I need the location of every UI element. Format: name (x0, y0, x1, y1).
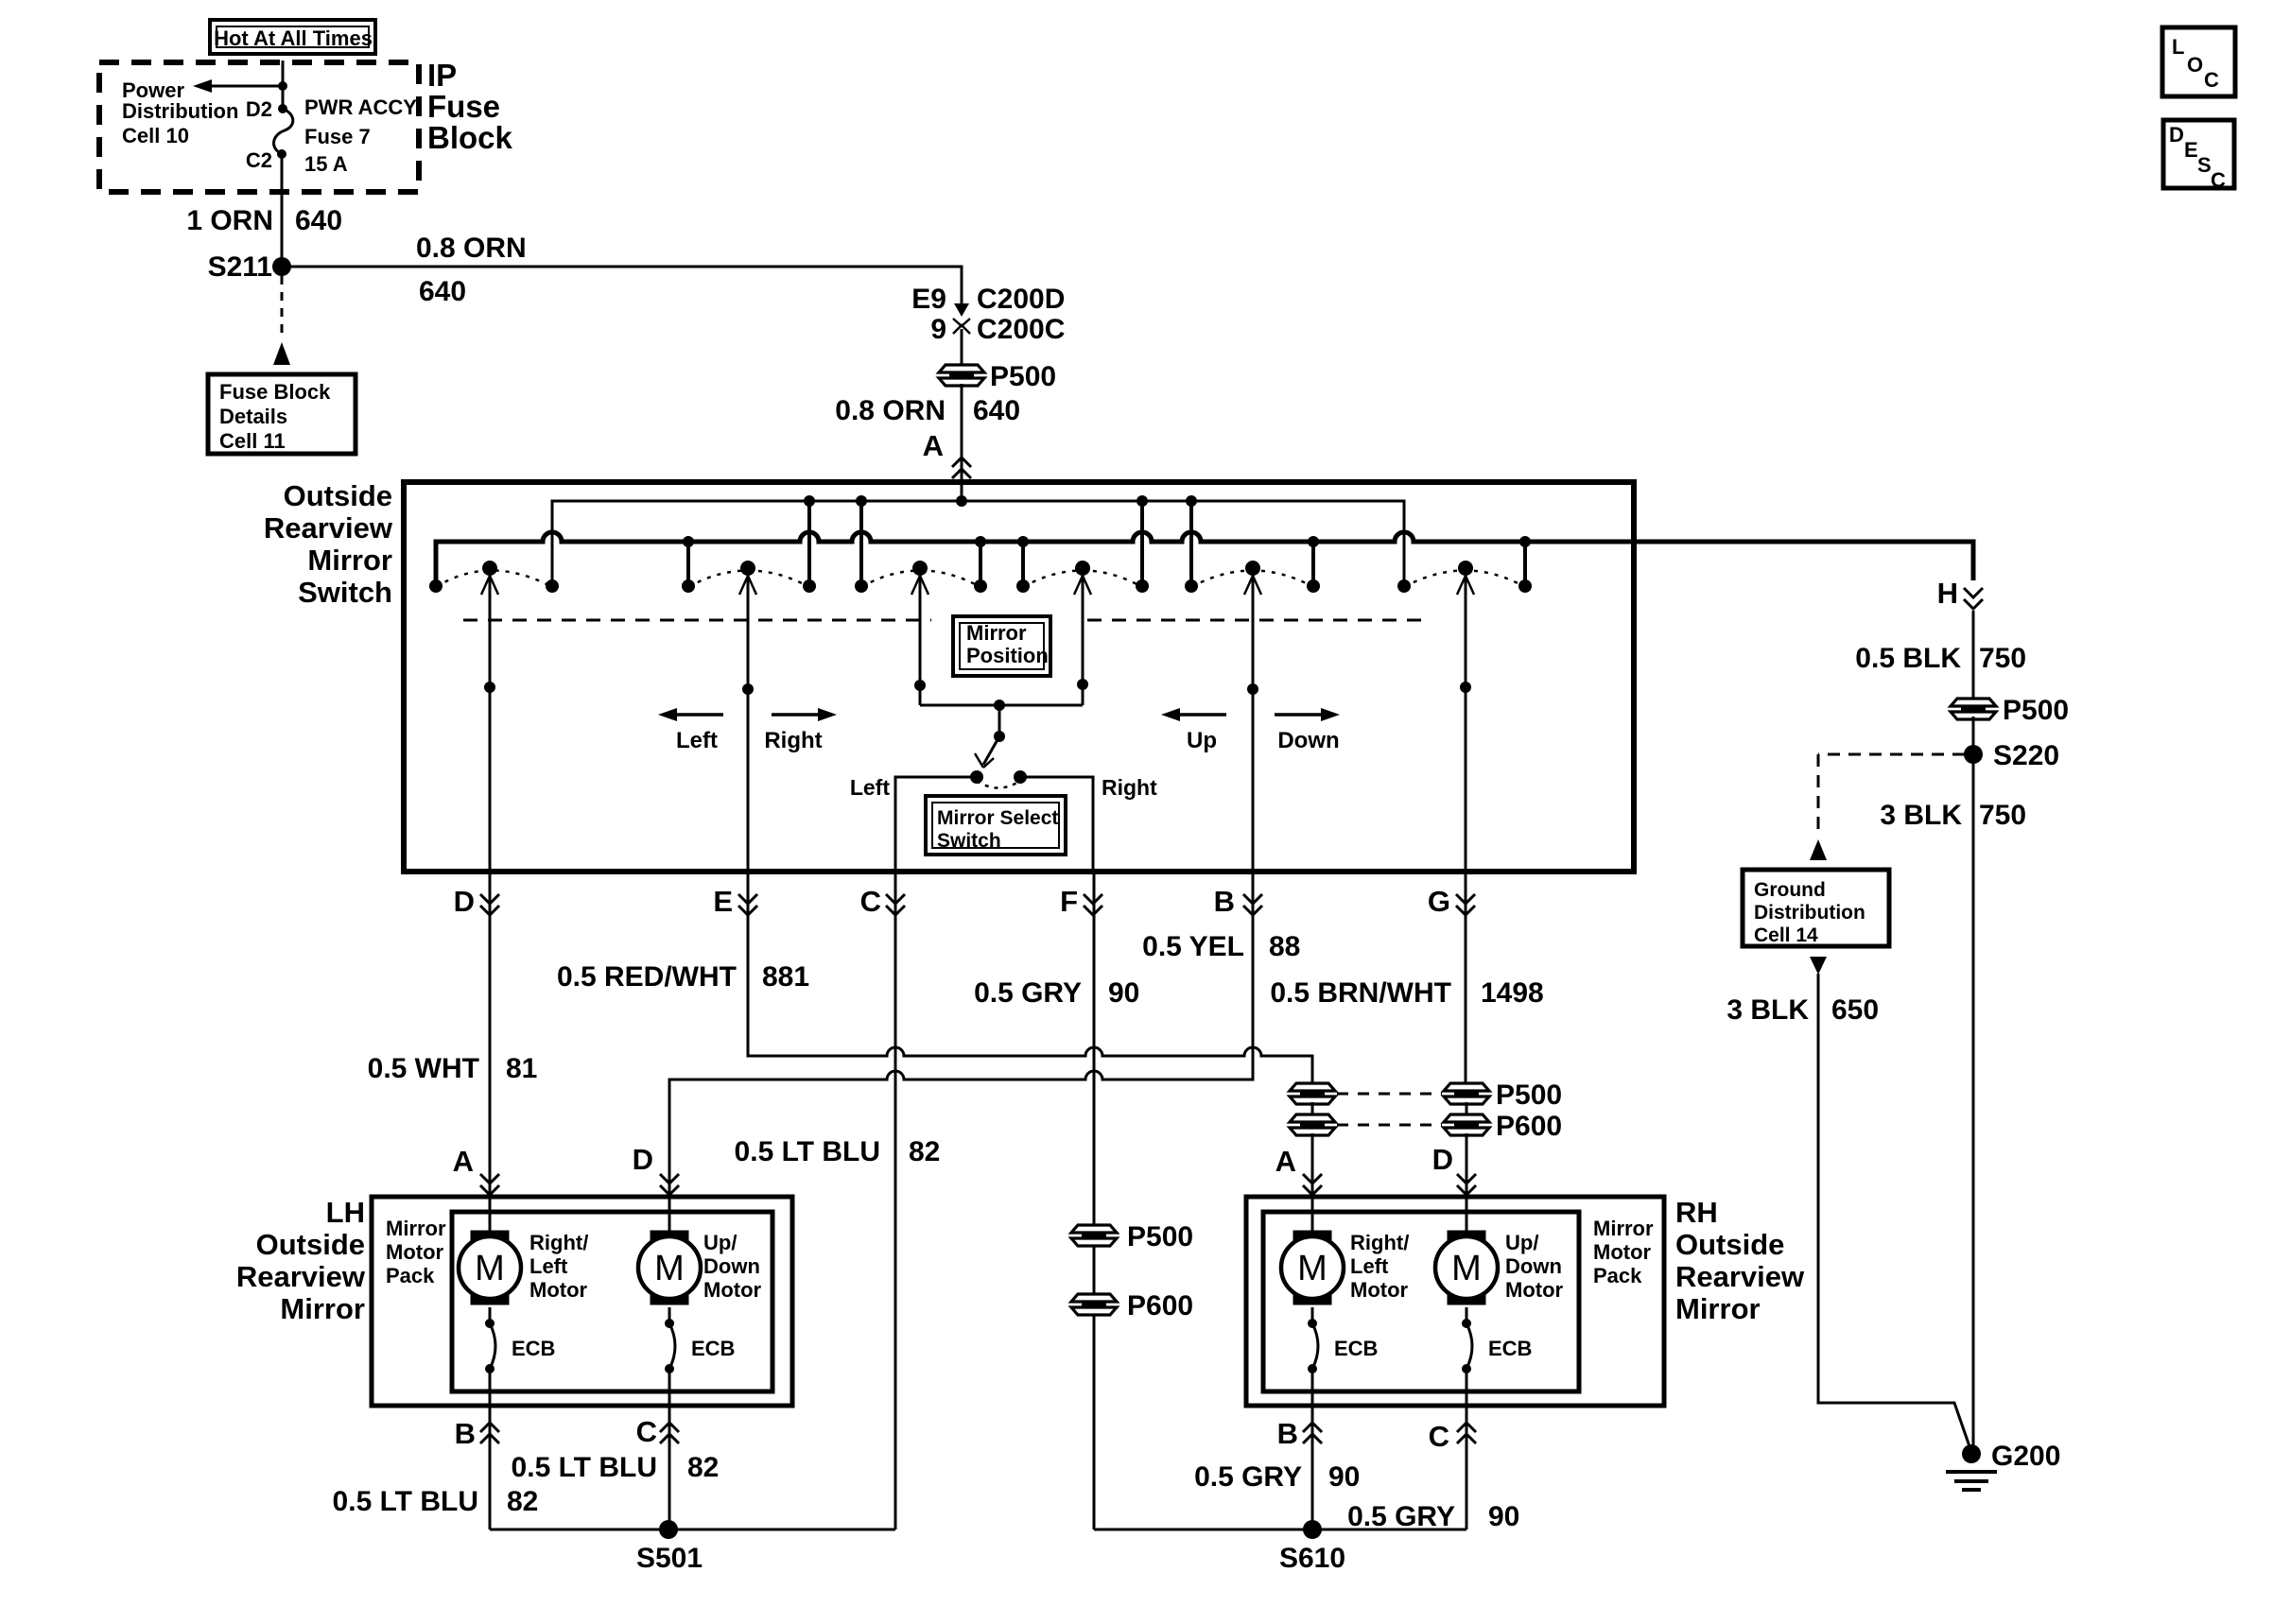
svg-text:F: F (1060, 885, 1078, 918)
wire splice run LH (490, 1529, 895, 1531)
svg-text:0.5 GRY: 0.5 GRY (1347, 1501, 1455, 1532)
svg-text:C2: C2 (246, 148, 272, 172)
connector P500 on RED/WHT wire (1290, 1083, 1335, 1091)
wire 0.5 BLK 750 H to P500 (1972, 611, 1975, 701)
svg-text:O: O (2187, 53, 2203, 77)
svg-text:0.8 ORN: 0.8 ORN (835, 395, 946, 426)
svg-text:90: 90 (1488, 1501, 1519, 1532)
svg-text:0.5 LT BLU: 0.5 LT BLU (512, 1452, 657, 1483)
svg-text:Outside: Outside (284, 479, 392, 512)
svg-text:82: 82 (507, 1486, 538, 1517)
svg-text:Position: Position (966, 644, 1049, 667)
svg-text:Left: Left (1350, 1254, 1389, 1278)
svg-text:640: 640 (295, 205, 342, 236)
LH right/left motor ECB breaker (489, 1307, 492, 1323)
LH right/left motor M1 (489, 1197, 492, 1231)
svg-text:0.5 GRY: 0.5 GRY (974, 977, 1082, 1009)
wire 0.5 GRY 90 switch F down (1093, 872, 1096, 1529)
svg-text:Up: Up (1187, 728, 1217, 753)
svg-text:Down: Down (1277, 728, 1339, 753)
svg-text:Mirror: Mirror (966, 621, 1027, 645)
svg-text:0.5 LT BLU: 0.5 LT BLU (735, 1136, 880, 1167)
svg-text:Details: Details (219, 405, 287, 428)
svg-text:90: 90 (1328, 1461, 1360, 1493)
svg-text:88: 88 (1269, 931, 1300, 962)
svg-text:P500: P500 (1127, 1221, 1193, 1253)
svg-text:ECB: ECB (1488, 1337, 1532, 1360)
mirror select switch box (926, 796, 1066, 855)
bus wire lower thick with crossover bumps (436, 532, 1973, 582)
dashed connector pair links (1337, 1093, 1442, 1096)
wire 3 BLK 650 from ground distribution (1810, 957, 1827, 975)
svg-text:Left: Left (850, 775, 891, 800)
svg-text:Switch: Switch (298, 576, 392, 609)
svg-text:L: L (2172, 35, 2184, 59)
entry chevrons RH pin D (1457, 1174, 1476, 1183)
svg-text:D: D (633, 1143, 653, 1176)
contact drop wires from upper bus (807, 501, 811, 584)
RH mirror motor pack box (1263, 1212, 1579, 1391)
connector P500 on BLK wire (1951, 699, 1996, 706)
svg-text:0.5 GRY: 0.5 GRY (1194, 1461, 1302, 1493)
svg-text:P600: P600 (1127, 1290, 1193, 1322)
switch wiper contacts with dashed throws (436, 571, 552, 588)
svg-text:81: 81 (506, 1053, 537, 1084)
RH up/down motor ECB breaker (1466, 1307, 1468, 1323)
svg-text:E: E (2184, 138, 2198, 162)
svg-text:Cell 14: Cell 14 (1754, 924, 1818, 946)
svg-text:Up/: Up/ (703, 1231, 737, 1254)
svg-text:D: D (454, 885, 475, 918)
connector entry chevrons pin A (952, 458, 971, 467)
svg-text:640: 640 (973, 395, 1020, 426)
entry chevrons LH pin D (660, 1174, 679, 1183)
wire P600 to RH pin A (1311, 1133, 1314, 1197)
svg-text:Pack: Pack (386, 1264, 435, 1287)
svg-text:15 A: 15 A (304, 152, 348, 176)
svg-text:750: 750 (1979, 800, 2026, 831)
svg-text:90: 90 (1108, 977, 1139, 1009)
wire between connectors RH D (1466, 1102, 1468, 1116)
bus wire upper (from pin A) (552, 501, 1404, 582)
svg-text:1498: 1498 (1481, 977, 1544, 1009)
dashed wire S220 to ground distribution (1818, 753, 1965, 756)
svg-text:B: B (1214, 885, 1235, 918)
svg-text:Motor: Motor (1350, 1278, 1409, 1302)
svg-text:Cell 10: Cell 10 (122, 124, 189, 147)
mirror position box (953, 616, 1050, 676)
svg-text:Cell 11: Cell 11 (219, 429, 286, 453)
RH right/left motor ECB breaker (1311, 1307, 1314, 1323)
svg-text:C: C (860, 885, 881, 918)
svg-text:Motor: Motor (1505, 1278, 1564, 1302)
svg-text:Pack: Pack (1593, 1264, 1642, 1287)
svg-text:B: B (455, 1417, 476, 1450)
connector P600 on GRY wire (1071, 1294, 1117, 1302)
svg-text:E: E (713, 885, 733, 918)
svg-text:M: M (1451, 1249, 1482, 1288)
svg-text:P500: P500 (2003, 695, 2069, 726)
svg-text:0.5 BLK: 0.5 BLK (1855, 643, 1961, 674)
RH right/left motor M3 (1311, 1197, 1314, 1231)
svg-text:Distribution: Distribution (122, 99, 238, 123)
bus junction dots lower (683, 536, 694, 547)
LH outside rearview mirror box (372, 1197, 792, 1406)
svg-text:0.5 RED/WHT: 0.5 RED/WHT (557, 961, 737, 993)
svg-text:H: H (1937, 577, 1958, 610)
svg-text:LH: LH (326, 1196, 365, 1229)
wire P600 to RH pin D (1466, 1133, 1468, 1197)
switch output pins D E C F B G (480, 894, 499, 904)
connector C200D/C200C break (961, 267, 963, 313)
svg-text:ECB: ECB (1334, 1337, 1378, 1360)
switch fixed contacts (429, 579, 442, 593)
svg-text:1 ORN: 1 ORN (186, 205, 273, 236)
wire between connectors (1311, 1102, 1314, 1116)
svg-text:Motor: Motor (1593, 1240, 1652, 1264)
svg-text:G200: G200 (1991, 1441, 2060, 1472)
svg-text:0.5 LT BLU: 0.5 LT BLU (333, 1486, 478, 1517)
svg-text:Mirror: Mirror (1593, 1217, 1654, 1240)
splice S220 (1964, 745, 1983, 764)
svg-text:S: S (2197, 153, 2212, 177)
direction arrow Left (675, 713, 723, 717)
direction arrow Down (1275, 713, 1323, 717)
svg-text:Rearview: Rearview (1675, 1260, 1805, 1293)
RH outside rearview mirror box (1246, 1197, 1664, 1406)
svg-text:S610: S610 (1279, 1543, 1345, 1574)
svg-text:82: 82 (909, 1136, 940, 1167)
connector P500 on GRY wire (1071, 1225, 1117, 1233)
bus junction dots upper (804, 495, 815, 507)
branch arrow to power distribution (278, 81, 287, 91)
svg-text:A: A (923, 429, 944, 462)
svg-text:0.8 ORN: 0.8 ORN (416, 233, 527, 264)
DESC reference box (2163, 120, 2234, 188)
svg-text:Block: Block (427, 120, 513, 155)
svg-text:Up/: Up/ (1505, 1231, 1538, 1254)
svg-text:E9: E9 (911, 284, 946, 315)
svg-text:M: M (654, 1249, 685, 1288)
svg-text:Ground: Ground (1754, 879, 1826, 901)
svg-text:Rearview: Rearview (264, 511, 393, 544)
svg-text:Right: Right (764, 728, 822, 753)
svg-text:3 BLK: 3 BLK (1726, 994, 1809, 1026)
svg-text:Rearview: Rearview (236, 1260, 366, 1293)
svg-text:Fuse 7: Fuse 7 (304, 125, 371, 148)
svg-text:ECB: ECB (691, 1337, 735, 1360)
svg-text:Motor: Motor (529, 1278, 588, 1302)
svg-text:ECB: ECB (512, 1337, 555, 1360)
svg-text:Left: Left (529, 1254, 568, 1278)
svg-text:0.5 YEL: 0.5 YEL (1142, 931, 1244, 962)
svg-text:P500: P500 (990, 361, 1056, 392)
svg-text:Distribution: Distribution (1754, 902, 1865, 924)
svg-text:C: C (2204, 68, 2219, 92)
label box Hot At All Times (210, 20, 375, 54)
wire 0.8 ORN 640 S211 to C200 (282, 267, 962, 301)
wire 0.5 BRN/WHT 1498 switch G to RH mirror D (1465, 872, 1467, 1085)
svg-text:C: C (636, 1415, 657, 1448)
dashed wire S211 to fuse block details (281, 276, 284, 340)
exit chevrons pin H (1964, 588, 1983, 597)
wire fuse to S211 (281, 154, 284, 267)
svg-text:RH: RH (1675, 1196, 1718, 1229)
svg-text:Mirror: Mirror (307, 544, 392, 577)
LH up/down motor M2 (668, 1197, 671, 1231)
entry chevrons LH pin A (480, 1174, 499, 1183)
svg-text:C: C (2211, 168, 2226, 192)
splice S211 (272, 257, 291, 276)
wiper output wires inside switch (489, 576, 492, 872)
svg-text:Outside: Outside (1675, 1228, 1784, 1261)
svg-text:D: D (1432, 1143, 1453, 1176)
svg-text:Mirror: Mirror (1675, 1292, 1761, 1325)
wire P500 to switch pin A (961, 384, 963, 501)
svg-text:0.5 BRN/WHT: 0.5 BRN/WHT (1270, 977, 1451, 1009)
svg-text:Mirror: Mirror (280, 1292, 365, 1325)
svg-text:750: 750 (1979, 643, 2026, 674)
connector P500 on ORN wire (939, 365, 984, 372)
svg-text:881: 881 (762, 961, 809, 993)
LOC reference box (2162, 27, 2235, 96)
svg-text:S220: S220 (1993, 740, 2059, 771)
svg-text:Motor: Motor (386, 1240, 444, 1264)
svg-text:A: A (453, 1145, 474, 1178)
wire 0.5 WHT 81 switch D to LH mirror A (489, 872, 492, 1197)
svg-text:G: G (1428, 885, 1450, 918)
wire 0.5 YEL 88 switch B to LH mirror D (669, 872, 1253, 1197)
svg-text:B: B (1277, 1417, 1298, 1450)
LH mirror motor pack box (452, 1212, 772, 1391)
svg-text:9: 9 (930, 314, 946, 345)
svg-text:3 BLK: 3 BLK (1880, 800, 1962, 831)
splice S501 (659, 1520, 678, 1539)
svg-text:M: M (475, 1249, 505, 1288)
svg-text:Right/: Right/ (1350, 1231, 1409, 1254)
svg-text:Fuse Block: Fuse Block (219, 380, 331, 404)
svg-text:Right/: Right/ (529, 1231, 588, 1254)
reference box Fuse Block Details Cell 11 (208, 374, 356, 454)
direction arrow Up (1178, 713, 1226, 717)
wire select right contact to output F (1020, 777, 1093, 872)
svg-text:Down: Down (1505, 1254, 1562, 1278)
wire fuse feed vertical (282, 60, 285, 107)
svg-text:Motor: Motor (703, 1278, 762, 1302)
svg-text:Mirror Select: Mirror Select (937, 807, 1058, 829)
svg-text:P600: P600 (1496, 1111, 1562, 1142)
wire 3 BLK 750 S220 to G200 (1972, 754, 1975, 1452)
mirror select wiper arm (983, 736, 999, 765)
svg-text:Mirror: Mirror (386, 1217, 446, 1240)
outside rearview mirror switch box (404, 482, 1634, 872)
connector P500 on BRN/WHT wire (1444, 1083, 1489, 1091)
wire select left contact to output C (895, 777, 977, 872)
LH up/down motor ECB breaker (668, 1307, 671, 1323)
wire 0.5 LT BLU 82 switch C down to splice run (894, 872, 897, 1529)
contact drop wires from lower bus (686, 542, 690, 584)
svg-text:Down: Down (703, 1254, 760, 1278)
reference box Ground Distribution Cell 14 (1743, 870, 1889, 946)
svg-text:PWR ACCY: PWR ACCY (304, 95, 417, 119)
svg-text:A: A (1275, 1145, 1296, 1178)
ground G200 (1962, 1444, 1981, 1463)
svg-text:D2: D2 (246, 97, 272, 121)
svg-text:Outside: Outside (256, 1228, 365, 1261)
svg-text:C200D: C200D (977, 284, 1065, 315)
svg-text:P500: P500 (1496, 1080, 1562, 1111)
wire splice run RH (1094, 1529, 1466, 1531)
mechanical link dashed line (463, 619, 931, 622)
svg-text:C: C (1429, 1420, 1449, 1453)
svg-text:Right: Right (1102, 775, 1157, 800)
svg-text:0.5 WHT: 0.5 WHT (368, 1053, 479, 1084)
direction arrow Right (772, 713, 820, 717)
RH up/down motor M4 (1466, 1197, 1468, 1231)
IP fuse block dashed box (99, 62, 419, 192)
svg-text:640: 640 (419, 276, 466, 307)
connector P600 on RED/WHT wire (1290, 1114, 1335, 1122)
svg-text:M: M (1297, 1249, 1327, 1288)
svg-text:Left: Left (676, 728, 718, 753)
svg-text:IP: IP (427, 58, 457, 93)
svg-text:650: 650 (1831, 994, 1879, 1026)
entry chevrons RH pin A (1303, 1174, 1322, 1183)
svg-text:Hot At All Times: Hot At All Times (214, 26, 373, 50)
svg-text:C200C: C200C (977, 314, 1065, 345)
svg-text:D: D (2169, 123, 2184, 147)
svg-text:S501: S501 (636, 1543, 703, 1574)
connector P600 on BRN/WHT wire (1444, 1114, 1489, 1122)
splice S610 (1303, 1520, 1322, 1539)
svg-text:Switch: Switch (937, 830, 1001, 852)
mirror position selector bracket (920, 704, 1083, 707)
svg-text:82: 82 (687, 1452, 719, 1483)
wire C200C to P500 (961, 329, 963, 369)
svg-text:S211: S211 (208, 251, 272, 283)
fuse F7 with terminals D2 C2 (278, 104, 287, 113)
svg-text:Fuse: Fuse (427, 89, 500, 124)
wire P500 to S220 (1972, 717, 1975, 754)
mirror select switch contacts Left Right (970, 770, 983, 784)
wire 0.5 RED/WHT 881 switch E to RH mirror A (748, 872, 1312, 1085)
